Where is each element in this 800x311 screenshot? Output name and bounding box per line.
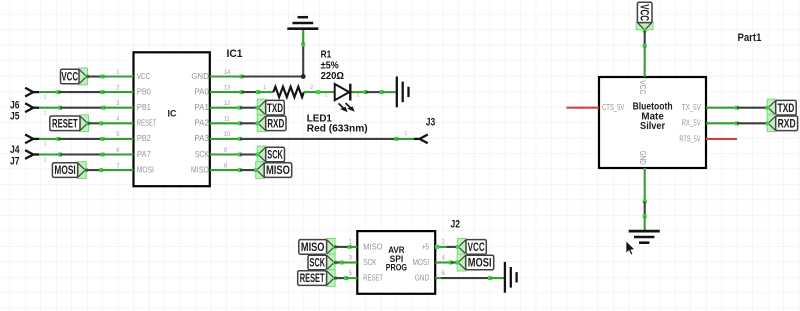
wire MISO to J2.1 (334, 245, 357, 249)
svg-text:TX_5V: TX_5V (682, 102, 701, 112)
LED1 pin numbers (325, 92, 360, 98)
svg-text:MOSI: MOSI (413, 257, 430, 267)
svg-text:GND: GND (638, 151, 648, 165)
J2 pin name labels (363, 241, 429, 282)
wire PA2 to RXD (210, 121, 258, 125)
mouse cursor (626, 241, 635, 255)
net flag RESET (IC pin 4) (50, 115, 90, 132)
svg-text:PA3: PA3 (194, 133, 209, 143)
svg-text:PROG: PROG (386, 263, 407, 274)
svg-text:MOSI: MOSI (137, 164, 154, 174)
wire J2.4 to MOSI (435, 261, 460, 265)
connector J3 pin (404, 131, 427, 143)
wire Part1 GND to ground (643, 168, 647, 231)
svg-text:IC: IC (168, 108, 177, 119)
label J2 (451, 219, 461, 231)
net flag TXD (IC) (256, 99, 285, 116)
wire J2.6 to ground (435, 276, 505, 280)
connector J2 body (357, 231, 435, 294)
ground symbol (top) (287, 17, 318, 29)
unrouted wire RTS_5V (706, 138, 737, 140)
svg-text:1: 1 (263, 85, 266, 91)
power flag VCC (IC pin 1) (61, 68, 90, 85)
svg-text:GND: GND (415, 273, 429, 283)
svg-text:SCK: SCK (310, 258, 326, 270)
svg-text:1: 1 (404, 131, 407, 137)
svg-text:SCK: SCK (195, 149, 209, 159)
net flag RXD (IC) (256, 115, 287, 132)
svg-text:VCC: VCC (61, 72, 78, 84)
svg-text:13: 13 (224, 85, 231, 91)
wire RESET to J2.5 (334, 276, 357, 280)
svg-text:SCK: SCK (267, 150, 283, 162)
svg-text:R1: R1 (321, 50, 332, 61)
R1 pin numbers (263, 85, 313, 91)
net flag RXD (Part1) (766, 115, 798, 132)
net flag MOSI (IC pin 7) (52, 162, 88, 179)
wire TX_5V to TXD (706, 106, 768, 110)
svg-text:SCK: SCK (363, 257, 377, 267)
svg-text:PA7: PA7 (137, 149, 151, 159)
label J4 (10, 144, 20, 156)
net flag MISO (J2 pin 1) (299, 239, 337, 256)
wire VCC flag to Part1 (643, 31, 647, 77)
wire PA0 to R1 (210, 90, 273, 94)
wire J6 to PB0 (39, 90, 134, 94)
ground symbol (bottom right) (629, 231, 660, 243)
svg-text:Red (633nm): Red (633nm) (307, 123, 368, 135)
LED1 value labels (307, 113, 368, 135)
svg-text:1: 1 (44, 111, 47, 117)
resistor R1 (273, 87, 304, 97)
svg-text:RTS_5V: RTS_5V (679, 133, 701, 143)
net flag MOSI (J2 pin 4) (456, 254, 494, 271)
svg-text:PB2: PB2 (137, 133, 151, 143)
svg-text:±5%: ±5% (321, 60, 339, 71)
svg-text:J4: J4 (10, 144, 20, 156)
power flag VCC (J2 pin 2) (456, 239, 487, 256)
svg-text:1: 1 (44, 142, 47, 148)
svg-text:J3: J3 (426, 116, 436, 128)
connector J7 pin (PA7) (25, 150, 46, 163)
wire LED1 to ground (352, 90, 396, 94)
svg-text:VCC: VCC (137, 71, 150, 81)
power flag VCC (Part1 top) (636, 2, 653, 32)
svg-text:VCC: VCC (637, 4, 649, 21)
label J6 (10, 100, 20, 112)
svg-text:+5: +5 (422, 241, 430, 251)
wire J5 to PB1 (39, 106, 134, 110)
unrouted wire CTS_5V (566, 107, 599, 109)
wire SCK to J2.3 (334, 261, 357, 265)
svg-text:PB0: PB0 (137, 86, 151, 96)
svg-text:RESET: RESET (363, 273, 383, 283)
svg-text:1: 1 (44, 157, 47, 163)
wire R1 to LED1 (304, 90, 335, 94)
wire PA3 to J3 (210, 137, 414, 141)
svg-text:RXD: RXD (778, 118, 796, 130)
svg-text:PA1: PA1 (194, 102, 209, 112)
wire J4 to PB2 (39, 137, 134, 141)
svg-text:1: 1 (325, 92, 328, 98)
svg-text:J7: J7 (10, 155, 20, 167)
svg-text:GND: GND (191, 71, 209, 81)
net flag SCK (IC) (256, 146, 285, 163)
label J7 (10, 155, 20, 167)
LED LED1 (335, 84, 355, 113)
wire J7 to PA7 (39, 153, 134, 157)
svg-text:MOSI: MOSI (468, 258, 492, 270)
net flag RESET (J2 pin 5) (298, 270, 337, 287)
svg-text:IC1: IC1 (227, 48, 243, 60)
svg-text:RESET: RESET (137, 118, 157, 128)
svg-text:2: 2 (310, 85, 313, 91)
svg-text:J2: J2 (451, 219, 461, 231)
J2 pin numbers (349, 240, 446, 277)
wire MOSI flag to pin 7 (85, 168, 133, 172)
svg-text:RESET: RESET (300, 273, 325, 285)
net flag MISO (IC) (254, 162, 292, 179)
IC pin numbers (116, 70, 231, 170)
svg-text:220Ω: 220Ω (321, 71, 344, 82)
svg-text:11: 11 (224, 117, 231, 123)
svg-text:PA0: PA0 (194, 86, 209, 96)
wire GND pin 14 to ground (210, 30, 306, 79)
wire RX_5V to RXD (706, 121, 768, 125)
IC pin name labels (137, 71, 209, 175)
svg-text:MISO: MISO (191, 164, 209, 174)
svg-text:MISO: MISO (363, 241, 383, 251)
connector J4 pin (PB2) (25, 135, 46, 148)
IC1 reference label (227, 48, 243, 60)
svg-text:Part1: Part1 (738, 32, 762, 44)
label Part1 (738, 32, 762, 44)
ground symbol (right of J2) (505, 262, 517, 293)
svg-text:RX_5V: RX_5V (682, 118, 701, 128)
svg-text:J5: J5 (10, 111, 20, 123)
wire J2.2 to VCC (435, 245, 460, 249)
svg-text:1: 1 (44, 95, 47, 101)
net flag TXD (Part1) (766, 99, 797, 116)
wire PA1 to TXD (210, 106, 258, 110)
svg-text:12: 12 (224, 101, 231, 107)
wire RESET flag to pin 4 (88, 121, 134, 125)
Part1 pin name labels (602, 80, 701, 165)
svg-text:TXD: TXD (267, 103, 283, 115)
svg-text:14: 14 (224, 70, 231, 76)
svg-text:CTS_5V: CTS_5V (602, 102, 625, 112)
svg-text:MISO: MISO (301, 242, 325, 254)
label J5 (10, 111, 20, 123)
net flag SCK (J2 pin 3) (308, 254, 337, 271)
wire VCC flag to pin 1 (87, 75, 134, 79)
svg-text:RESET: RESET (52, 118, 78, 130)
svg-text:2: 2 (357, 92, 360, 98)
svg-text:MOSI: MOSI (54, 165, 75, 177)
svg-text:PB1: PB1 (137, 102, 151, 112)
svg-text:Silver: Silver (640, 121, 665, 132)
connector J6 pin (PB0) (25, 88, 46, 101)
wire SCK pin 9 (210, 153, 258, 157)
R1 value labels (321, 50, 344, 82)
svg-text:TXD: TXD (778, 103, 795, 115)
svg-text:10: 10 (224, 132, 231, 138)
IC IC1 body (134, 52, 210, 186)
label J3 (426, 116, 436, 128)
svg-text:RXD: RXD (267, 118, 284, 130)
module Part1 body (599, 77, 706, 168)
svg-text:VCC: VCC (468, 242, 485, 254)
connector J5 pin (PB1) (25, 103, 46, 116)
ground symbol (right of LED1) (397, 76, 409, 107)
svg-text:PA2: PA2 (194, 118, 209, 128)
svg-text:VCC: VCC (638, 80, 648, 94)
wire MISO pin 8 (210, 168, 258, 172)
svg-text:MISO: MISO (266, 165, 290, 177)
